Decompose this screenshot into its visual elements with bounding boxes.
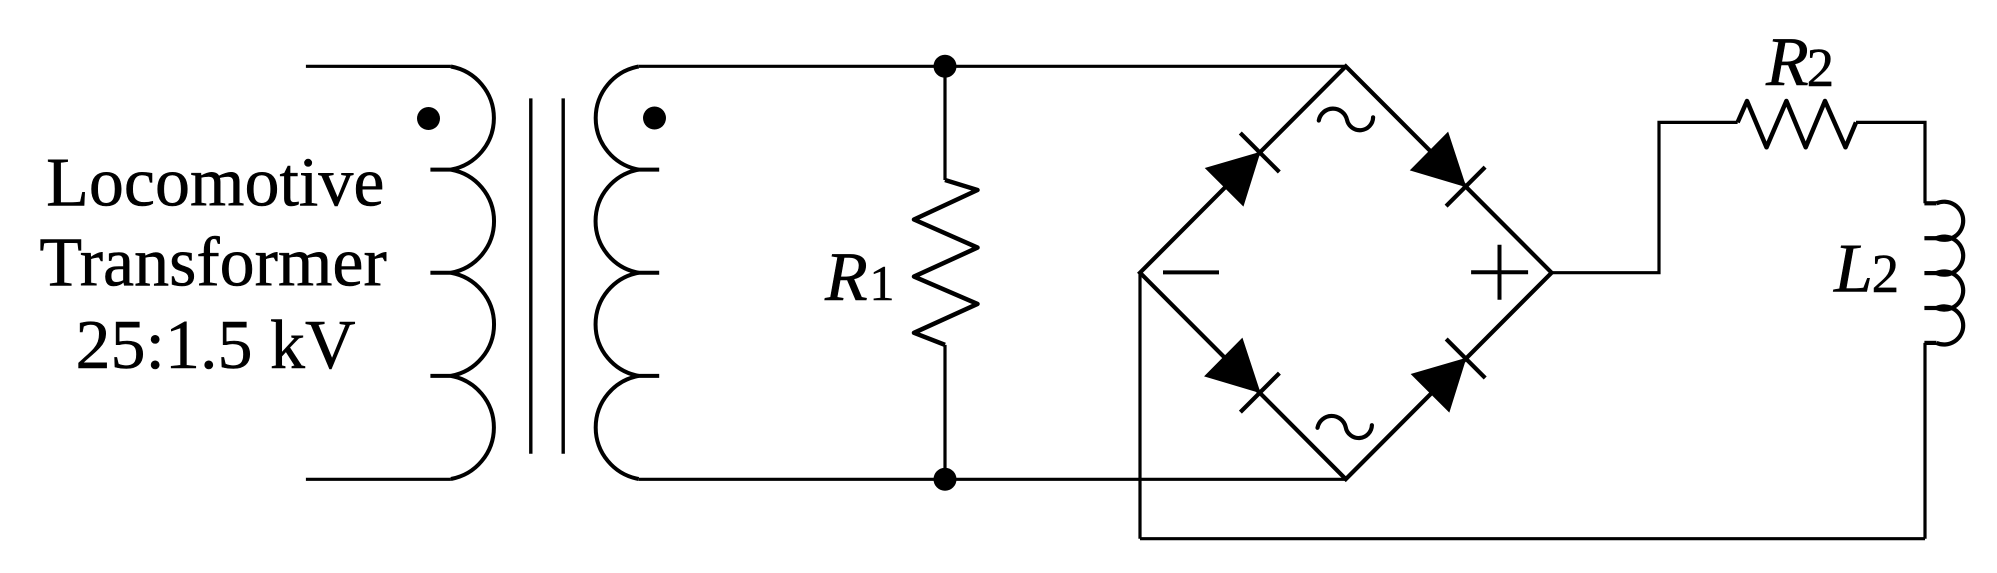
diode D1 (left vertex to top vertex)	[1206, 133, 1280, 206]
diode D3 (left vertex to bottom vertex)	[1205, 339, 1279, 413]
wire: primary top lead	[306, 65, 451, 68]
svg-text:2: 2	[1807, 37, 1835, 98]
inductor L2 cusp ticks	[1924, 203, 1936, 343]
transformer T1 primary winding	[451, 67, 494, 480]
polarity dot (secondary)	[643, 107, 666, 130]
junction node (bottom, R1 tap)	[934, 468, 957, 491]
wire: R1 top lead	[943, 66, 946, 180]
resistor R2	[1738, 101, 1856, 147]
primary winding cusp ticks	[430, 170, 451, 376]
svg-text:2: 2	[1872, 243, 1900, 304]
resistor R1	[914, 180, 978, 345]
label R1	[824, 239, 895, 316]
wire: R2 to L2 top lead	[1856, 122, 1925, 203]
svg-text:R: R	[1765, 24, 1809, 101]
polarity dot (primary)	[417, 107, 440, 130]
wire: secondary top to bridge top vertex	[639, 65, 1346, 68]
svg-text:Locomotive: Locomotive	[46, 144, 384, 221]
svg-text:L: L	[1833, 231, 1873, 308]
svg-text:1: 1	[870, 255, 895, 311]
secondary winding cusp ticks	[639, 170, 660, 376]
transformer core	[531, 98, 563, 453]
plus terminal label	[1471, 245, 1528, 300]
inductor L2	[1937, 202, 1964, 345]
AC tilde (top)	[1319, 109, 1373, 131]
wire: L2 bottom lead	[1923, 343, 1926, 539]
wire: secondary bottom to bridge bottom vertex	[639, 478, 1346, 481]
label R2	[1765, 24, 1834, 101]
AC tilde (bottom)	[1318, 416, 1372, 438]
svg-text:Transformer: Transformer	[39, 224, 386, 301]
minus terminal label	[1163, 270, 1219, 274]
svg-text:R: R	[824, 239, 868, 316]
diode D2 (top vertex to right vertex)	[1411, 133, 1485, 207]
transformer T1 secondary winding	[596, 67, 639, 480]
diode D4 (bottom vertex to right vertex)	[1412, 339, 1486, 412]
svg-text:25:1.5 kV: 25:1.5 kV	[76, 307, 356, 384]
bridge diamond wiring	[1140, 66, 1552, 479]
wire: primary bottom lead	[306, 478, 451, 481]
wire: bottom return	[1140, 537, 1925, 540]
wire: bridge + output to R2	[1552, 122, 1738, 272]
label L2	[1833, 231, 1899, 308]
wire: R1 bottom lead	[943, 345, 946, 479]
junction node (top, R1 tap)	[934, 55, 957, 78]
wire: bridge - drop	[1138, 273, 1141, 539]
